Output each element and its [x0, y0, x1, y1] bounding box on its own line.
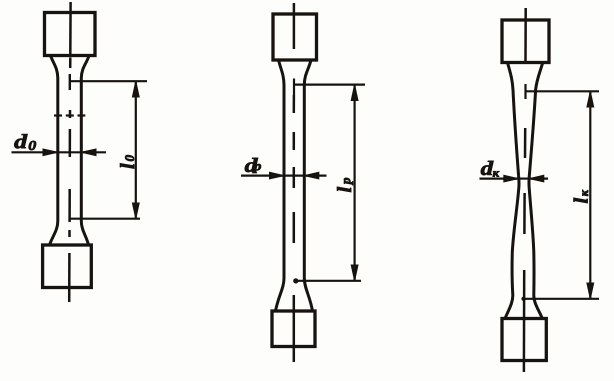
specimen B centerline: [293, 3, 296, 362]
label dp: [245, 158, 261, 173]
dimension lp line with arrows: [351, 85, 358, 281]
label l0: [120, 155, 134, 168]
dimension lk extension lines: [521, 84, 599, 301]
specimen A centerline: [69, 2, 70, 302]
specimen C top head: [502, 20, 549, 63]
dimension dk leader and arrows: [480, 175, 549, 182]
specimen A bottom head: [43, 245, 92, 288]
specimen C centerline: [524, 8, 526, 372]
specimen C bottom head: [502, 319, 546, 361]
specimen B top head: [273, 14, 317, 60]
specimen A gauge tick marks: [54, 114, 85, 116]
dimension l0 line with arrows: [132, 81, 139, 219]
dimension d0 leader and arrows: [12, 149, 107, 156]
label d0: [14, 134, 36, 150]
label lk: [574, 190, 588, 203]
dimension l0 extension lines: [70, 74, 147, 219]
dimension lk line with arrows: [587, 91, 594, 298]
dimension dp leader and arrows: [241, 172, 327, 179]
specimen C necked body outline: [505, 63, 543, 319]
specimen B body outline: [276, 60, 313, 311]
label dk: [481, 161, 499, 177]
specimen A top head: [45, 13, 96, 56]
specimen B bottom head: [272, 311, 315, 347]
label lp: [337, 178, 353, 192]
specimen A body outline: [50, 56, 90, 246]
dimension lp extension lines: [293, 79, 365, 284]
